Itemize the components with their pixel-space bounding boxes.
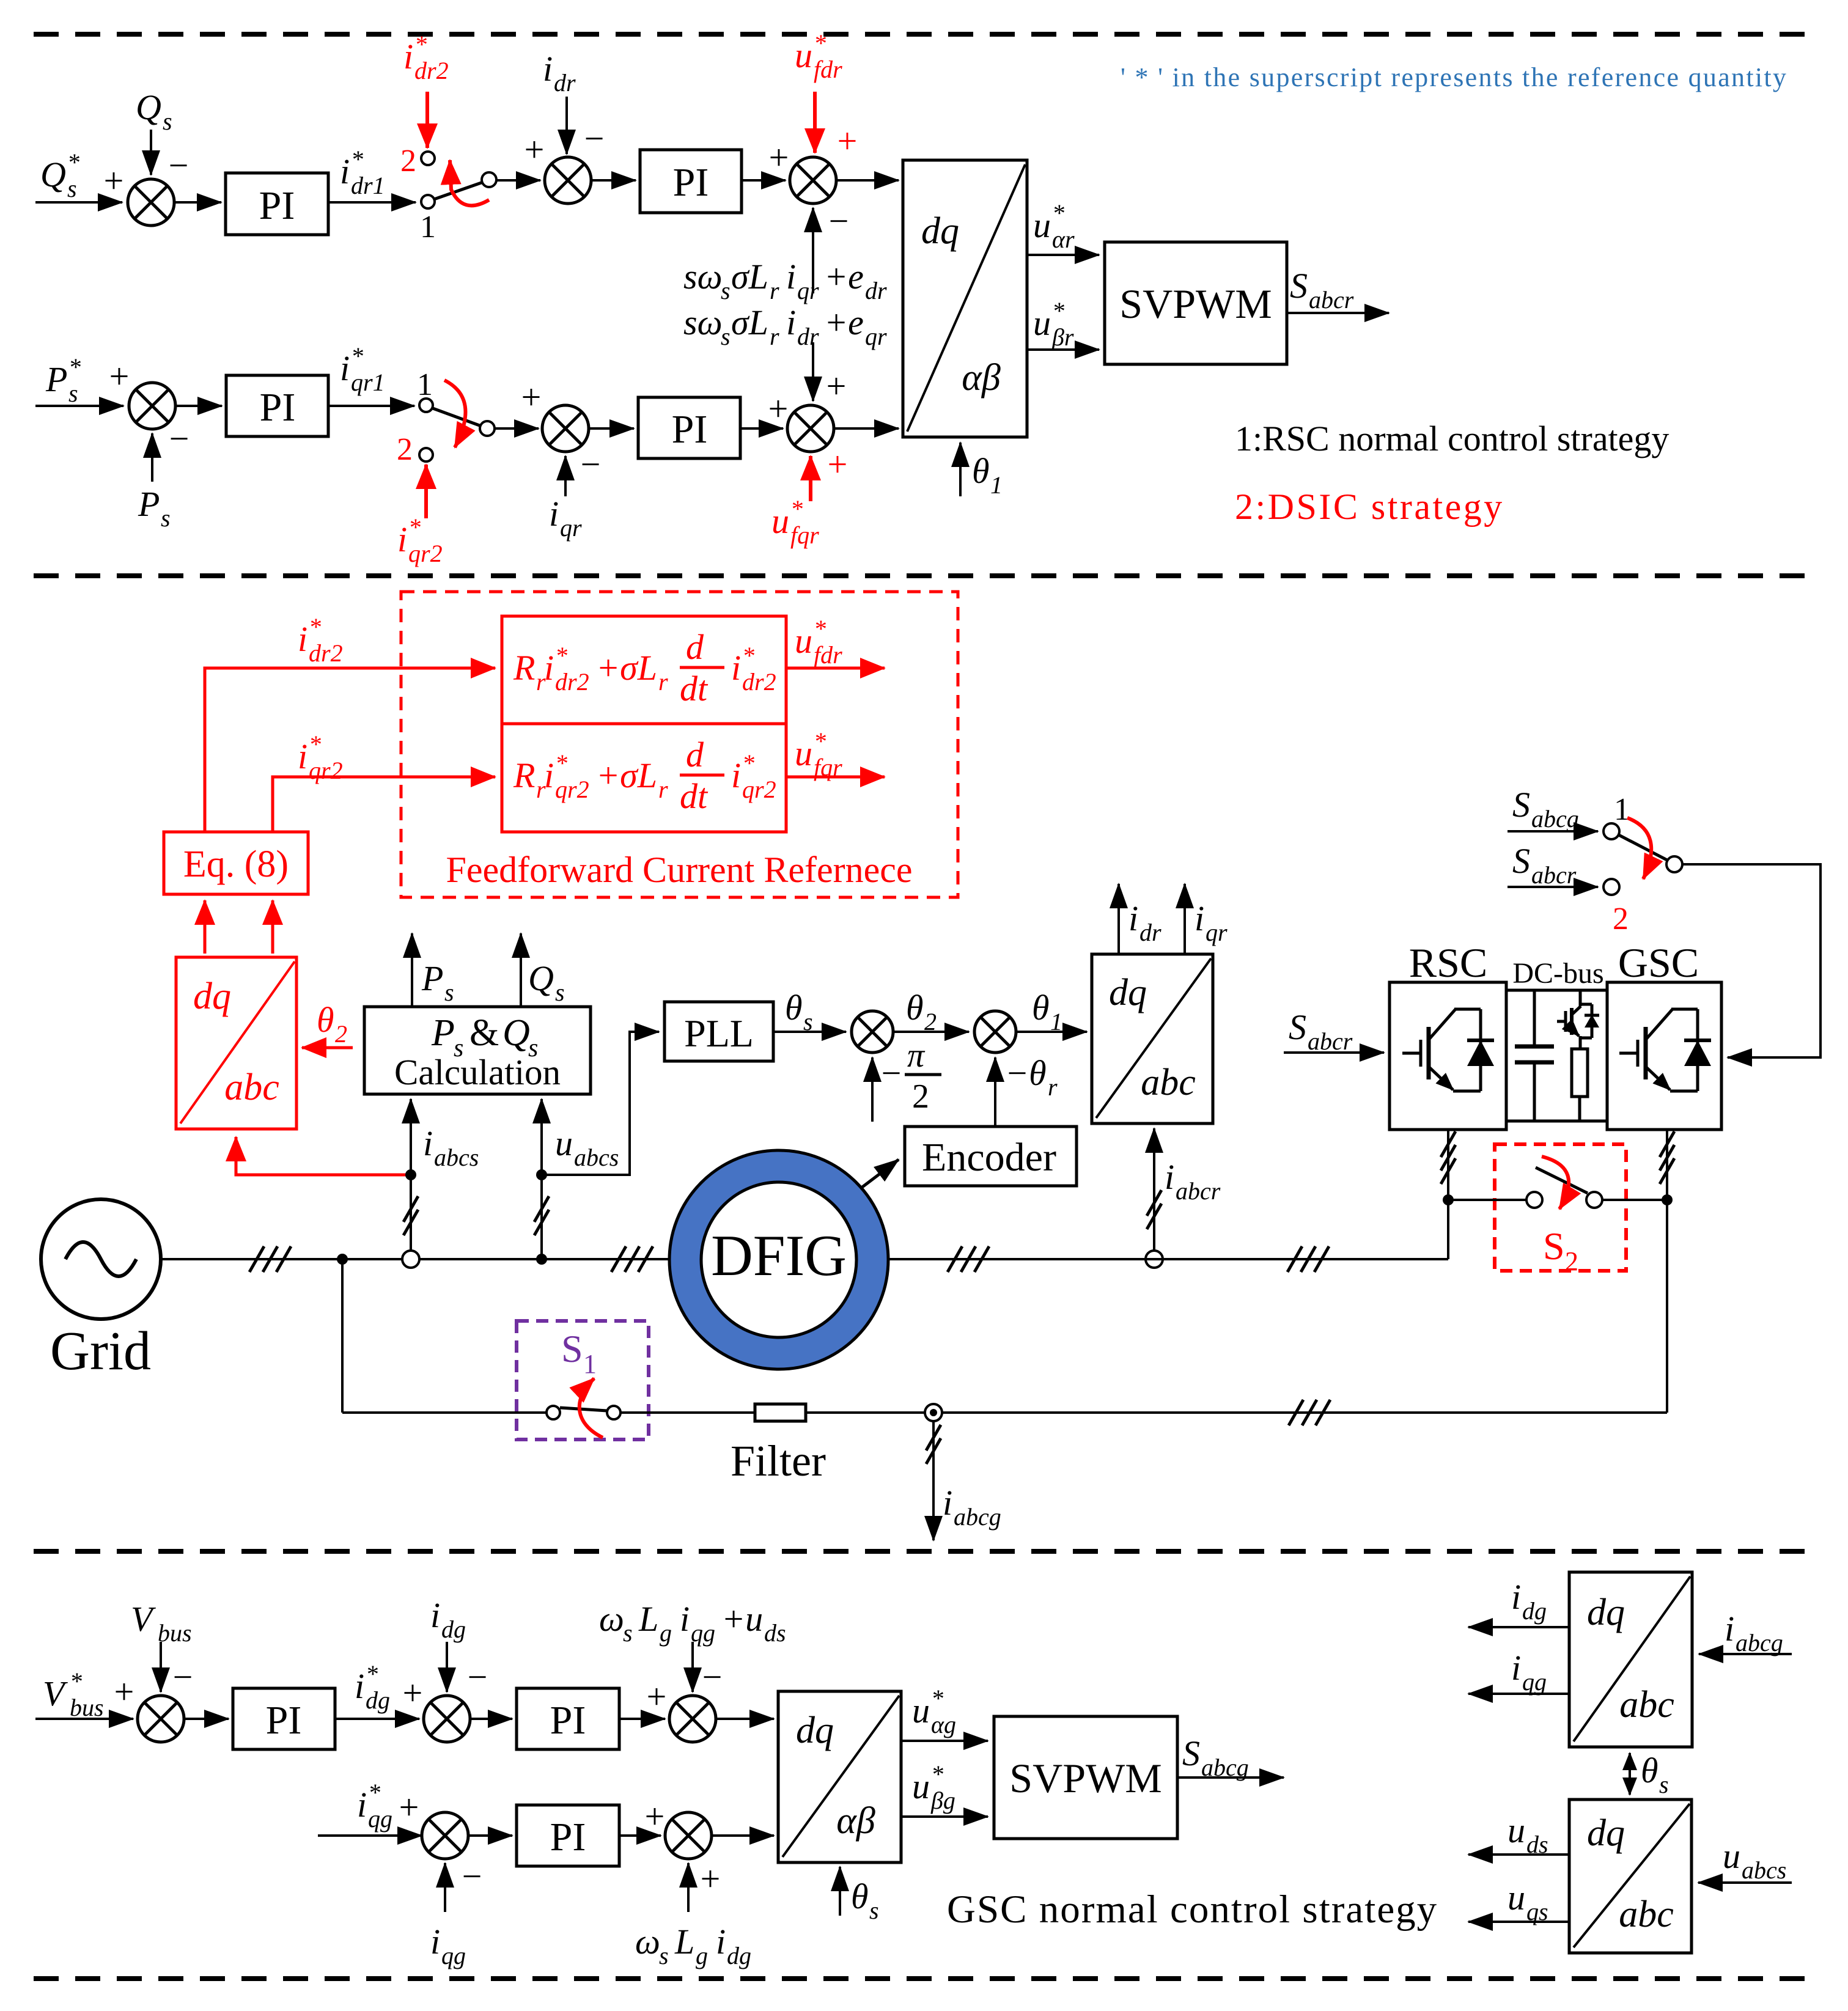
svg-text:PI: PI: [266, 1698, 302, 1743]
wire Ps output: [411, 933, 413, 1007]
grid source symbol: [41, 1199, 161, 1319]
measurement ring iabcg: [925, 1404, 942, 1421]
wire junction B2 to PI B2: [589, 427, 634, 430]
svg-text:+: +: [826, 366, 847, 406]
svg-text:S: S: [1543, 1224, 1565, 1268]
wire encoder to junction C2: [994, 1057, 996, 1127]
svg-text:u: u: [912, 1691, 930, 1730]
svg-text:*: *: [555, 642, 567, 669]
svg-text:*: *: [931, 1685, 943, 1712]
wire ubg* output: [901, 1815, 988, 1818]
wire iqg measurement output: [1468, 1693, 1569, 1695]
GSC converter block: [1607, 982, 1721, 1130]
svg-text:*: *: [309, 730, 321, 758]
svg-text:+: +: [837, 121, 858, 161]
section divider dashed line 4: [34, 1976, 1814, 1981]
svg-text:Q: Q: [40, 155, 66, 194]
svg-text:qs: qs: [1526, 1898, 1548, 1925]
svg-text:r: r: [770, 277, 779, 304]
svg-text:Encoder: Encoder: [922, 1135, 1056, 1180]
svg-text:σL: σL: [731, 303, 768, 342]
svg-text:s: s: [623, 1619, 633, 1647]
svg-text:i: i: [1511, 1577, 1521, 1617]
svg-text:qr: qr: [1206, 919, 1228, 946]
svg-text:+e: +e: [824, 257, 864, 296]
svg-text:i: i: [680, 1599, 690, 1639]
svg-text:2:DSIC strategy: 2:DSIC strategy: [1235, 487, 1504, 527]
summing junction G2: [424, 1696, 470, 1742]
summing junction G1: [138, 1696, 184, 1742]
SVPWM block (GSC): [994, 1716, 1177, 1839]
PI controller A1: [226, 173, 328, 235]
wire uds measurement output: [1468, 1853, 1569, 1856]
PI controller G1: [233, 1688, 335, 1749]
switch SW-A contact 2: [421, 152, 435, 165]
chopper resistor in DC-bus: [1572, 1049, 1588, 1097]
svg-text:qg: qg: [1522, 1668, 1547, 1696]
svg-text:i: i: [355, 1666, 364, 1706]
chopper IGBT in DC-bus: [1579, 990, 1582, 1006]
wire junction G5 to dq box (GSC): [712, 1834, 774, 1837]
svg-text:u: u: [555, 1123, 573, 1163]
PI controller B1: [226, 375, 328, 436]
svg-text:u: u: [1507, 1811, 1525, 1850]
svg-text:i: i: [340, 348, 350, 388]
svg-text:1: 1: [420, 210, 436, 244]
svg-text:dq: dq: [921, 210, 959, 252]
switch SW-B pole: [480, 421, 495, 436]
svg-text:i: i: [1725, 1609, 1734, 1649]
svg-text:1: 1: [1614, 792, 1630, 827]
svg-text:−θ: −θ: [1005, 1053, 1047, 1093]
svg-text:*: *: [814, 29, 826, 57]
svg-text:R: R: [513, 648, 535, 688]
junction dot S2 right: [1662, 1194, 1673, 1205]
wire iabcr tap into rotor dq box: [1153, 1128, 1155, 1259]
svg-text:S: S: [1289, 1007, 1306, 1047]
svg-text:S: S: [1512, 785, 1530, 825]
svg-text:P: P: [45, 359, 67, 399]
wire junction B3 to dq box: [834, 427, 899, 430]
svg-text:i: i: [731, 648, 741, 688]
svg-text:+: +: [647, 1677, 667, 1716]
svg-text:fqr: fqr: [790, 521, 819, 549]
PI controller G2: [517, 1688, 619, 1749]
svg-text:Q: Q: [502, 1012, 530, 1054]
wire Ps* input: [35, 405, 123, 407]
switch SW-C contact 2: [1603, 879, 1619, 895]
svg-text:θ: θ: [1641, 1751, 1658, 1790]
svg-text:dt: dt: [680, 776, 709, 816]
svg-text:i: i: [298, 737, 307, 776]
svg-text:PLL: PLL: [684, 1012, 754, 1055]
svg-text:s: s: [67, 175, 77, 202]
theta_s shared double arrow: [1629, 1753, 1631, 1795]
svg-text:*: *: [67, 149, 79, 176]
svg-text:PI: PI: [550, 1815, 586, 1859]
svg-text:ds: ds: [764, 1619, 786, 1647]
svg-text:βg: βg: [930, 1787, 955, 1814]
svg-text:+: +: [645, 1796, 665, 1836]
svg-text:2: 2: [335, 1020, 347, 1048]
svg-text:dq: dq: [193, 976, 231, 1017]
measurement ring iabcr on rotor bus: [1146, 1251, 1163, 1268]
wire filter to iabcg tap: [806, 1411, 1667, 1414]
rotation arrow of switch SW-A (red): [450, 160, 489, 205]
summing junction B1: [129, 383, 175, 429]
wire into Eq8 input 2 (red): [271, 900, 274, 954]
svg-text:&: &: [469, 1012, 499, 1054]
wire S1 to filter: [620, 1411, 755, 1414]
svg-text:sω: sω: [683, 303, 723, 342]
wire junction G3 to dq box (GSC): [716, 1718, 774, 1720]
svg-text:*: *: [368, 1779, 380, 1806]
wire switch SW-A pole to junction A2: [496, 179, 540, 182]
three-phase marks on grid-side branch: [1289, 1400, 1330, 1425]
svg-text:+: +: [828, 444, 848, 484]
svg-text:dt: dt: [680, 669, 709, 708]
transform block dq->abc (red): [176, 957, 296, 1129]
svg-text:dq: dq: [1587, 1592, 1625, 1633]
wire PI G2 to junction G3: [619, 1718, 665, 1720]
wire Sabcg output of SVPWM (GSC): [1177, 1776, 1284, 1779]
svg-text:PI: PI: [550, 1698, 586, 1743]
svg-text:d: d: [686, 735, 704, 774]
svg-text:u: u: [795, 35, 812, 75]
svg-text:abc: abc: [224, 1067, 279, 1108]
wire junction C2 to rotor dq box: [1016, 1031, 1087, 1033]
svg-text:dr: dr: [865, 277, 887, 304]
IGBT inside RSC: [1402, 1009, 1494, 1091]
summing junction C1 (theta_s - pi/2): [852, 1011, 893, 1053]
wire idg measurement output: [1468, 1626, 1569, 1628]
wire uag* output: [901, 1740, 988, 1742]
three-phase marks on GSC bottom wire: [1660, 1131, 1674, 1184]
svg-text:αβ: αβ: [962, 357, 1001, 399]
svg-text:*: *: [351, 145, 363, 173]
svg-text:2: 2: [912, 1078, 929, 1116]
svg-text:abcr: abcr: [1176, 1177, 1221, 1205]
svg-text:abcg: abcg: [1736, 1629, 1783, 1656]
wire junction B1 to PI B1: [175, 405, 222, 407]
svg-text:1: 1: [417, 367, 433, 402]
svg-text:Eq. (8): Eq. (8): [183, 844, 289, 885]
three-phase marks on rotor bus 2: [1287, 1246, 1329, 1272]
S2 dashed box (red): [1495, 1144, 1626, 1271]
IGBT inside GSC: [1619, 1009, 1711, 1091]
svg-text:qr2: qr2: [309, 757, 343, 784]
wire into Eq8 input 1 (red): [204, 900, 207, 954]
svg-text:*: *: [742, 642, 754, 669]
svg-text:Filter: Filter: [731, 1436, 826, 1485]
svg-text:*: *: [1052, 199, 1064, 227]
svg-text:−: −: [829, 201, 849, 241]
svg-text:s: s: [721, 277, 731, 304]
DC-bus top rail: [1506, 989, 1607, 992]
svg-text:i: i: [423, 1123, 433, 1163]
wire iabcg measurement arrow: [932, 1421, 935, 1540]
svg-text:+σL: +σL: [596, 648, 657, 688]
svg-text:SVPWM: SVPWM: [1009, 1755, 1161, 1801]
PI controller B2: [638, 397, 740, 458]
wire Sabcr into RSC: [1284, 1051, 1384, 1054]
svg-text:u: u: [912, 1767, 930, 1806]
wire ufdr* into junction A3 (red): [813, 92, 817, 153]
svg-text:+: +: [768, 389, 789, 428]
Ps and Qs calculation block: [364, 1007, 591, 1094]
wire ufqr* output of block 2 (red): [786, 776, 885, 779]
svg-text:dr2: dr2: [414, 57, 449, 84]
svg-text:' * ' in the superscript repre: ' * ' in the superscript represents the …: [1121, 62, 1787, 92]
svg-text:*: *: [814, 615, 826, 642]
svg-text:ds: ds: [1526, 1831, 1548, 1858]
svg-text:i: i: [544, 756, 554, 795]
svg-text:*: *: [1052, 297, 1064, 325]
wire idg down into junction G2: [446, 1642, 448, 1692]
svg-text:i: i: [544, 648, 554, 688]
svg-text:−: −: [702, 1657, 723, 1697]
svg-text:L: L: [638, 1599, 658, 1639]
switch SW-A lever: [434, 182, 483, 199]
svg-text:fdr: fdr: [814, 56, 842, 83]
three-phase marks on iabcs tap: [403, 1196, 418, 1235]
svg-text:*: *: [366, 1660, 378, 1688]
svg-text:abcr: abcr: [1308, 1028, 1353, 1055]
svg-text:θ: θ: [1032, 988, 1050, 1028]
wire switch SW-B pole to junction B2: [495, 427, 539, 430]
wire uabcs to PLL: [542, 1032, 659, 1175]
svg-text:u: u: [1723, 1836, 1740, 1876]
svg-text:i: i: [340, 152, 350, 191]
svg-text:Feedforward Current Refernece: Feedforward Current Refernece: [446, 850, 913, 890]
wire idr2* into contact 2 (red): [425, 92, 429, 148]
svg-text:s: s: [555, 979, 565, 1006]
junction dot of grid-side branch: [337, 1254, 348, 1265]
wire junction to S2 left contact: [1448, 1199, 1526, 1201]
svg-text:1: 1: [990, 471, 1003, 499]
rotation arrow of switch S2 (red): [1542, 1156, 1569, 1209]
svg-text:−: −: [173, 1657, 193, 1697]
svg-text:dg: dg: [1522, 1597, 1547, 1625]
svg-text:S: S: [1512, 841, 1530, 881]
svg-text:i: i: [943, 1483, 952, 1523]
wire PI A1 to switch contact 1: [328, 201, 416, 204]
svg-text:qr2: qr2: [742, 776, 776, 803]
svg-text:dg: dg: [727, 1942, 751, 1969]
svg-text:dq: dq: [1109, 972, 1147, 1013]
section divider dashed line 3: [34, 1549, 1814, 1554]
rotation arrow of switch S1 (red): [580, 1378, 603, 1438]
transform block dq->alphabeta (RSC): [903, 160, 1027, 437]
Eq. (8) block (red): [164, 832, 308, 894]
svg-text:2: 2: [1565, 1246, 1578, 1276]
svg-text:θ: θ: [785, 988, 803, 1028]
wire -pi/2 into junction C1: [871, 1057, 874, 1122]
svg-text:sω: sω: [683, 257, 723, 296]
svg-text:qg: qg: [368, 1805, 392, 1833]
switch SW-B lever: [433, 408, 481, 426]
wire SW-C pole to GSC input: [1682, 864, 1820, 1057]
wire theta2 into red dq box (red): [302, 1046, 353, 1050]
S1 dashed box (purple): [517, 1321, 649, 1439]
DFIG machine: [669, 1150, 888, 1369]
svg-text:bus: bus: [70, 1694, 104, 1721]
svg-text:i: i: [1165, 1157, 1174, 1197]
wire iqg* input: [318, 1834, 422, 1837]
SVPWM block (RSC): [1105, 242, 1287, 364]
three-phase marks on stator bus: [249, 1246, 291, 1272]
wire PI B1 to switch contact 1: [328, 405, 414, 407]
svg-text:r: r: [658, 776, 668, 803]
switch SW-C pole: [1666, 856, 1682, 872]
svg-text:−: −: [468, 1657, 488, 1697]
summing junction B3: [787, 405, 834, 452]
svg-text:+: +: [109, 356, 130, 396]
svg-text:+: +: [701, 1859, 721, 1899]
wire uabcs tap up into calculation block: [540, 1099, 543, 1259]
svg-text:−: −: [882, 1053, 902, 1093]
PI controller A2: [640, 150, 742, 213]
svg-text:θ: θ: [851, 1877, 869, 1916]
transform block dq->abc (grid current): [1569, 1572, 1692, 1747]
wire RSC bottom to junction: [1447, 1130, 1449, 1259]
svg-text:abcg: abcg: [1531, 805, 1579, 833]
svg-text:u: u: [1033, 205, 1051, 245]
switch SW-C contact 1: [1603, 823, 1619, 839]
wire Sabcr output of SVPWM: [1287, 312, 1389, 314]
svg-text:*: *: [931, 1760, 943, 1788]
svg-text:+e: +e: [824, 303, 864, 342]
feedforward block 1 (R_r i_dr2* + sigma L_r d/dt i_dr2*): [502, 616, 786, 724]
wire iqg up into junction G4: [444, 1863, 446, 1912]
svg-text:s: s: [1659, 1771, 1669, 1798]
switch S1 lever: [560, 1408, 607, 1411]
svg-text:u: u: [1507, 1878, 1525, 1917]
svg-text:i: i: [1511, 1648, 1521, 1688]
wire junction G4 to PI G3: [468, 1834, 512, 1837]
wire Ps up into junction B1: [151, 433, 153, 482]
switch SW-A pole: [482, 172, 496, 187]
svg-text:i: i: [430, 1922, 440, 1961]
junction dot uabcs on measurement wire: [536, 1169, 547, 1180]
svg-text:dr: dr: [554, 69, 576, 97]
svg-text:*: *: [814, 727, 826, 755]
svg-text:i: i: [731, 756, 741, 795]
svg-text:dq: dq: [1587, 1812, 1625, 1854]
wire iabcs tap up into calculation block: [410, 1099, 412, 1259]
RSC converter block: [1390, 982, 1506, 1130]
svg-text:θ: θ: [906, 988, 924, 1028]
svg-text:S: S: [1182, 1733, 1200, 1773]
svg-text:P: P: [138, 484, 160, 524]
wire PI B2 to junction B3: [740, 427, 783, 430]
three-phase marks on uabcs tap: [534, 1196, 549, 1235]
wire idr down into junction A2: [565, 97, 568, 154]
three-phase marks on stator bus 2: [611, 1246, 653, 1272]
svg-text:DFIG: DFIG: [711, 1223, 847, 1288]
transform block dq->abc (stator voltage): [1569, 1800, 1692, 1953]
svg-text:abc: abc: [1619, 1894, 1674, 1935]
svg-text:u: u: [771, 501, 789, 541]
svg-text:ω: ω: [635, 1922, 660, 1961]
svg-text:PI: PI: [260, 385, 296, 430]
switch SW-C lever: [1619, 835, 1667, 860]
switch S2 contact left: [1526, 1192, 1542, 1208]
svg-text:i: i: [403, 37, 413, 76]
summing junction G4: [422, 1812, 468, 1859]
svg-text:L: L: [674, 1922, 694, 1961]
svg-text:DC-bus: DC-bus: [1512, 957, 1603, 990]
svg-text:dr1: dr1: [351, 172, 385, 199]
wire Qs* input: [35, 201, 122, 204]
svg-text:*: *: [414, 31, 427, 58]
svg-text:abcs: abcs: [434, 1144, 479, 1171]
svg-text:S: S: [1290, 266, 1308, 306]
svg-text:abcs: abcs: [1742, 1856, 1786, 1884]
svg-text:d: d: [686, 627, 704, 667]
junction dot S2 left: [1443, 1194, 1454, 1205]
svg-text:i: i: [1195, 899, 1204, 938]
feedforward current reference dashed box (red): [401, 592, 958, 897]
three-phase marks on iabcr tap: [1147, 1190, 1161, 1229]
svg-text:+σL: +σL: [596, 756, 657, 795]
wire uabcs input: [1698, 1881, 1792, 1884]
switch S1 contact left: [547, 1406, 560, 1419]
svg-text:+: +: [525, 130, 545, 169]
svg-text:g: g: [696, 1942, 708, 1969]
svg-text:*: *: [351, 342, 363, 370]
wire PI G3 to junction G5: [619, 1834, 661, 1837]
summing junction A3: [790, 157, 836, 204]
svg-text:ω: ω: [599, 1599, 624, 1639]
svg-text:PI: PI: [672, 407, 708, 452]
svg-text:−: −: [169, 145, 189, 185]
svg-text:P: P: [431, 1012, 455, 1054]
wire idr measurement output: [1117, 884, 1120, 954]
svg-text:i: i: [786, 257, 796, 296]
wire ufqr* into junction B3 (red): [809, 456, 812, 501]
wire compensation down into junction G3: [691, 1642, 694, 1692]
svg-text:i: i: [430, 1595, 440, 1635]
svg-text:qr2: qr2: [555, 776, 589, 803]
svg-text:+: +: [399, 1787, 419, 1827]
junction dot uabcs on stator bus: [536, 1254, 547, 1265]
svg-text:i: i: [549, 494, 559, 534]
switch SW-B contact 1: [419, 399, 433, 412]
svg-text:s: s: [659, 1942, 669, 1969]
switch S1 contact right: [607, 1406, 620, 1419]
stator bus wire grid to DFIG: [161, 1258, 671, 1260]
svg-text:s: s: [869, 1897, 879, 1924]
svg-text:qr2: qr2: [408, 540, 443, 567]
svg-text:π: π: [907, 1037, 926, 1075]
svg-text:bus: bus: [158, 1619, 192, 1647]
transform block dq->abc (rotor current): [1092, 954, 1213, 1123]
svg-text:i: i: [298, 619, 307, 659]
wire DFIG to Encoder: [856, 1160, 899, 1192]
switch S2 lever: [1536, 1167, 1588, 1193]
summing junction G3: [669, 1696, 716, 1742]
summing junction A2: [545, 157, 591, 204]
svg-text:αr: αr: [1052, 226, 1075, 253]
three-phase marks on rotor bus: [948, 1246, 989, 1272]
svg-text:−: −: [581, 444, 601, 484]
wire junction A3 to dq box: [836, 179, 899, 182]
svg-text:qr1: qr1: [351, 369, 385, 396]
svg-text:+u: +u: [721, 1599, 763, 1639]
wire junction G2 to PI G2: [470, 1718, 512, 1720]
svg-text:dq: dq: [796, 1710, 834, 1751]
